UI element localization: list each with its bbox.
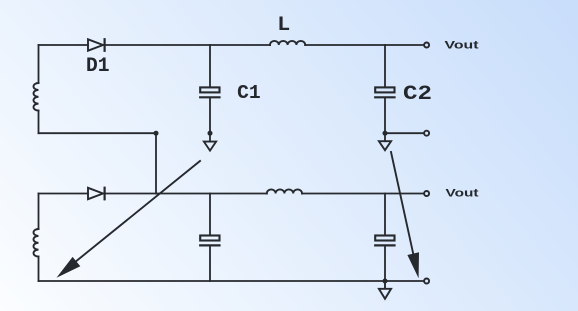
svg-text:C2: C2 bbox=[403, 83, 432, 106]
inductor (bottom circuit) bbox=[267, 189, 302, 193]
capacitor C2 bbox=[375, 87, 394, 97]
svg-text:D1: D1 bbox=[86, 55, 110, 78]
wire bottom rail (bottom circuit) bbox=[39, 280, 424, 282]
ground under C2 bbox=[379, 141, 391, 150]
terminal return (top circuit) bbox=[424, 131, 429, 136]
wire left vertical lower (bottom circuit) bbox=[38, 257, 40, 281]
wire left vertical upper (top circuit) bbox=[38, 45, 40, 83]
wire top rail left segment (top circuit) bbox=[39, 44, 89, 46]
wire top rail left segment (bottom circuit) bbox=[39, 193, 89, 195]
wire top rail right segment (bottom circuit) bbox=[302, 193, 424, 195]
capacitor C1 bbox=[200, 87, 219, 97]
diode (bottom circuit) bbox=[88, 188, 105, 200]
node junction at link bbox=[154, 131, 159, 136]
wire C2 node to return terminal bbox=[385, 132, 424, 134]
capacitor (bottom circuit right) bbox=[375, 236, 394, 246]
wire bottom rail (top circuit) bbox=[39, 132, 157, 134]
annotation arrow left bbox=[57, 161, 201, 278]
ground (bottom circuit) bbox=[379, 281, 391, 299]
wire top rail middle segment bbox=[105, 44, 270, 46]
wire C1 lower lead bbox=[209, 98, 211, 141]
node ground junction (bottom circuit) bbox=[383, 279, 388, 284]
svg-text:Vout: Vout bbox=[446, 188, 479, 200]
node C1 ground junction bbox=[208, 131, 213, 136]
svg-text:L: L bbox=[277, 14, 290, 37]
svg-text:Vout: Vout bbox=[445, 39, 479, 51]
wire C1 upper lead bbox=[209, 45, 211, 87]
inductor left winding (top circuit) bbox=[34, 83, 39, 111]
svg-text:C1: C1 bbox=[237, 82, 261, 104]
ground under C1 bbox=[204, 142, 216, 151]
capacitor (bottom circuit left) bbox=[200, 236, 219, 246]
terminal Vout (bottom circuit) bbox=[424, 191, 429, 196]
wire link between circuits bbox=[155, 133, 157, 193]
wire top rail right segment bbox=[305, 44, 423, 46]
terminal Vout (top circuit) bbox=[424, 43, 429, 48]
wire left vertical lower (top circuit) bbox=[38, 111, 40, 134]
wire C2 lower lead bbox=[384, 98, 386, 141]
inductor left winding (bottom circuit) bbox=[33, 229, 38, 257]
inductor L bbox=[270, 41, 305, 45]
diode D1 bbox=[88, 39, 105, 51]
wire left vertical upper (bottom circuit) bbox=[38, 194, 40, 230]
wire capacitor 1 lower lead (bottom circuit) bbox=[209, 246, 211, 281]
terminal return (bottom circuit) bbox=[424, 279, 429, 284]
wire C2 upper lead bbox=[384, 45, 386, 87]
wire capacitor 2 lower lead (bottom circuit) bbox=[384, 246, 386, 281]
node C2 ground junction bbox=[383, 131, 388, 136]
wire capacitor 1 upper lead (bottom circuit) bbox=[209, 194, 211, 236]
wire top rail middle segment (bottom circuit) bbox=[105, 193, 267, 195]
annotation arrow right bbox=[391, 152, 419, 278]
wire capacitor 2 upper lead (bottom circuit) bbox=[384, 194, 386, 236]
